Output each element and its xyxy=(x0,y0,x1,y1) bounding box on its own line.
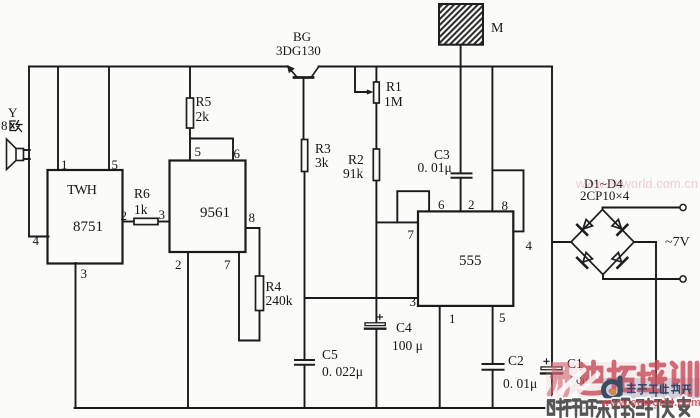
terminal lower xyxy=(680,276,686,282)
label C5 xyxy=(322,348,338,362)
wire R5 bottom xyxy=(189,128,191,139)
pin 4 TWH xyxy=(33,234,40,247)
wire bridge right corner out xyxy=(634,241,656,243)
label C4 xyxy=(396,321,412,335)
wire transistor base to R3 xyxy=(303,78,305,141)
motor M hatched block xyxy=(439,4,483,45)
wire right rail to C1 xyxy=(551,67,553,367)
label M xyxy=(491,22,503,36)
watermark url band xyxy=(597,398,700,407)
label 3DG130 xyxy=(276,44,321,57)
IC U2 9561 xyxy=(170,161,246,253)
wire TWH pin1 xyxy=(57,67,59,171)
watermark white slash 1 xyxy=(551,370,584,400)
wire top rail left xyxy=(29,66,288,68)
pin 5 9561 xyxy=(195,145,202,158)
label 1k xyxy=(134,203,148,217)
wire 555 pin5 to C2 xyxy=(492,306,494,364)
potentiometer R1 xyxy=(374,82,380,103)
label 9561 xyxy=(200,206,230,221)
wire R1 top xyxy=(375,67,377,83)
label speaker 8ohm xyxy=(1,119,8,132)
pin 3 9561 xyxy=(159,208,166,221)
watermark hanzi 迪 xyxy=(579,362,604,393)
wire node to 555 pin3 xyxy=(305,297,419,299)
watermark hanzi row 射频和天线设计专家 xyxy=(548,398,690,418)
wire C1 to bottom rail xyxy=(551,375,553,409)
label C3 xyxy=(434,148,450,162)
label R1 xyxy=(386,80,402,94)
wire R5 top xyxy=(189,67,191,99)
label R5 xyxy=(196,95,212,109)
potentiometer R1 wiper arrow xyxy=(367,89,374,94)
label R3 xyxy=(315,142,331,156)
wire right rail to bridge left corner xyxy=(552,241,571,243)
watermark banner box xyxy=(603,378,700,398)
wire R4 bottom xyxy=(259,311,261,341)
wire top rail to 555 pin8 xyxy=(491,67,493,212)
watermark url red xyxy=(601,398,700,409)
resistor R5 xyxy=(187,98,194,128)
wire C2 to bottom rail xyxy=(492,370,494,408)
pin 7 9561 xyxy=(224,258,231,271)
wire 555 pin1 to bottom rail xyxy=(439,306,441,408)
pin 2 TWH xyxy=(121,209,128,222)
label R2 xyxy=(348,153,364,167)
pin 1 555 xyxy=(449,312,456,325)
wire speaker terminal top xyxy=(24,149,30,151)
diode D2 xyxy=(612,220,627,235)
label BG xyxy=(293,30,311,43)
watermark hanzi 拓 xyxy=(609,362,634,391)
label 0.01u C2 xyxy=(503,377,537,391)
label 240k xyxy=(266,294,293,308)
wire R1 wiper arm xyxy=(355,67,367,93)
label 70u xyxy=(570,374,588,386)
resistor R4 xyxy=(256,276,264,311)
pin 3 TWH xyxy=(81,267,88,280)
label D1~D4 xyxy=(584,177,623,190)
wire speaker terminal bottom xyxy=(24,158,30,160)
label speaker Y xyxy=(8,106,17,119)
wire 9561 pin7 to R4 bottom xyxy=(239,252,260,341)
capacitor C1 electrolytic xyxy=(541,359,562,374)
wire R6 to 9561 pin3 xyxy=(158,221,170,223)
label R4 xyxy=(266,280,282,294)
wire C3 to 555 pin2 xyxy=(460,178,462,212)
wire TWH pin4 stub xyxy=(29,236,49,238)
resistor R6 xyxy=(134,218,158,224)
wire top rail right xyxy=(319,66,553,68)
pin 8 555 xyxy=(502,199,509,212)
wire left rail xyxy=(28,67,30,237)
wire bottom rail xyxy=(75,407,656,409)
label 2k xyxy=(196,110,210,124)
wire R1 to R2 xyxy=(375,103,377,149)
watermark d logo xyxy=(604,378,621,399)
wire motor M to C3 xyxy=(460,45,462,173)
pin 6 9561 xyxy=(234,147,241,160)
wire R2 down through junctions to C4 xyxy=(375,181,377,324)
label 1M xyxy=(384,95,403,109)
label C1 xyxy=(567,357,583,371)
label 3k xyxy=(315,156,329,170)
wire C5 to bottom rail xyxy=(304,365,306,408)
capacitor C2 xyxy=(483,364,504,370)
IC U3 555 xyxy=(418,211,513,306)
pin 7 555 xyxy=(408,228,415,241)
pin 6 555 xyxy=(438,198,445,211)
wire 555 pin4 loop xyxy=(492,170,523,231)
diode D4 xyxy=(612,253,627,268)
pin 5 TWH xyxy=(112,158,119,171)
label 0.01u C3 xyxy=(418,161,452,175)
watermark hanzi 电子工程世界 xyxy=(628,384,691,395)
transistor Q1 3DG130 xyxy=(288,66,319,78)
label 8欧 hanzi xyxy=(10,121,22,132)
wire bridge top corner to upper terminal xyxy=(603,208,680,210)
wire TWH pin5 xyxy=(108,67,110,171)
pin 2 9561 xyxy=(175,258,182,271)
wire 9561 pin2 to bottom rail xyxy=(187,252,189,408)
resistor R3 xyxy=(302,140,308,172)
wire C4 to bottom rail xyxy=(375,329,377,408)
pin 8 9561 xyxy=(249,211,256,224)
label 0.022u xyxy=(322,365,363,379)
label 8751 xyxy=(73,220,103,235)
label C2 xyxy=(508,354,524,368)
capacitor C4 electrolytic xyxy=(365,315,385,329)
watermark hanzi 培 xyxy=(639,362,665,391)
pin 4 555 xyxy=(526,239,533,252)
capacitor C3 xyxy=(452,173,472,177)
bridge rectifier diamond xyxy=(571,210,634,275)
watermark hanzi 易 xyxy=(549,365,570,398)
wire R3 to C5 node xyxy=(304,172,306,360)
pin 3 555 xyxy=(410,295,417,308)
speaker Y xyxy=(7,139,24,170)
label 2CP10x4 xyxy=(580,189,629,202)
label TWH xyxy=(67,184,96,198)
pin 1 TWH xyxy=(61,158,68,171)
terminal upper xyxy=(680,204,686,210)
watermark faint url upper xyxy=(576,177,698,190)
resistor R2 xyxy=(373,149,379,181)
label 100u xyxy=(392,339,423,353)
label 555 xyxy=(459,254,482,269)
pin 5 555 xyxy=(499,311,506,324)
wire TWH pin2 to R6 xyxy=(123,221,135,223)
label ~7V xyxy=(665,236,690,250)
diode D3 xyxy=(577,253,592,268)
wire 9561 pin5-pin6 bracket xyxy=(190,139,233,161)
capacitor C5 xyxy=(295,360,314,365)
diode D1 xyxy=(577,220,592,235)
watermark white slash 2 xyxy=(565,374,598,404)
wire bridge right to bottom rail xyxy=(655,242,657,408)
pin 2 555 xyxy=(468,198,475,211)
watermark hanzi 训 xyxy=(672,363,697,395)
label R6 xyxy=(134,187,150,201)
wire node to 555 pin7 xyxy=(376,221,418,223)
wire TWH pin3 to bottom rail xyxy=(75,263,77,408)
wire 9561 pin8 to R4 top xyxy=(246,228,260,276)
IC U1 TWH8751 xyxy=(48,170,123,264)
watermark red glow xyxy=(546,362,700,399)
label 91k xyxy=(343,167,363,181)
wire bridge bottom corner to lower terminal xyxy=(603,275,680,280)
wire 555 pin6 bracket xyxy=(397,191,429,222)
